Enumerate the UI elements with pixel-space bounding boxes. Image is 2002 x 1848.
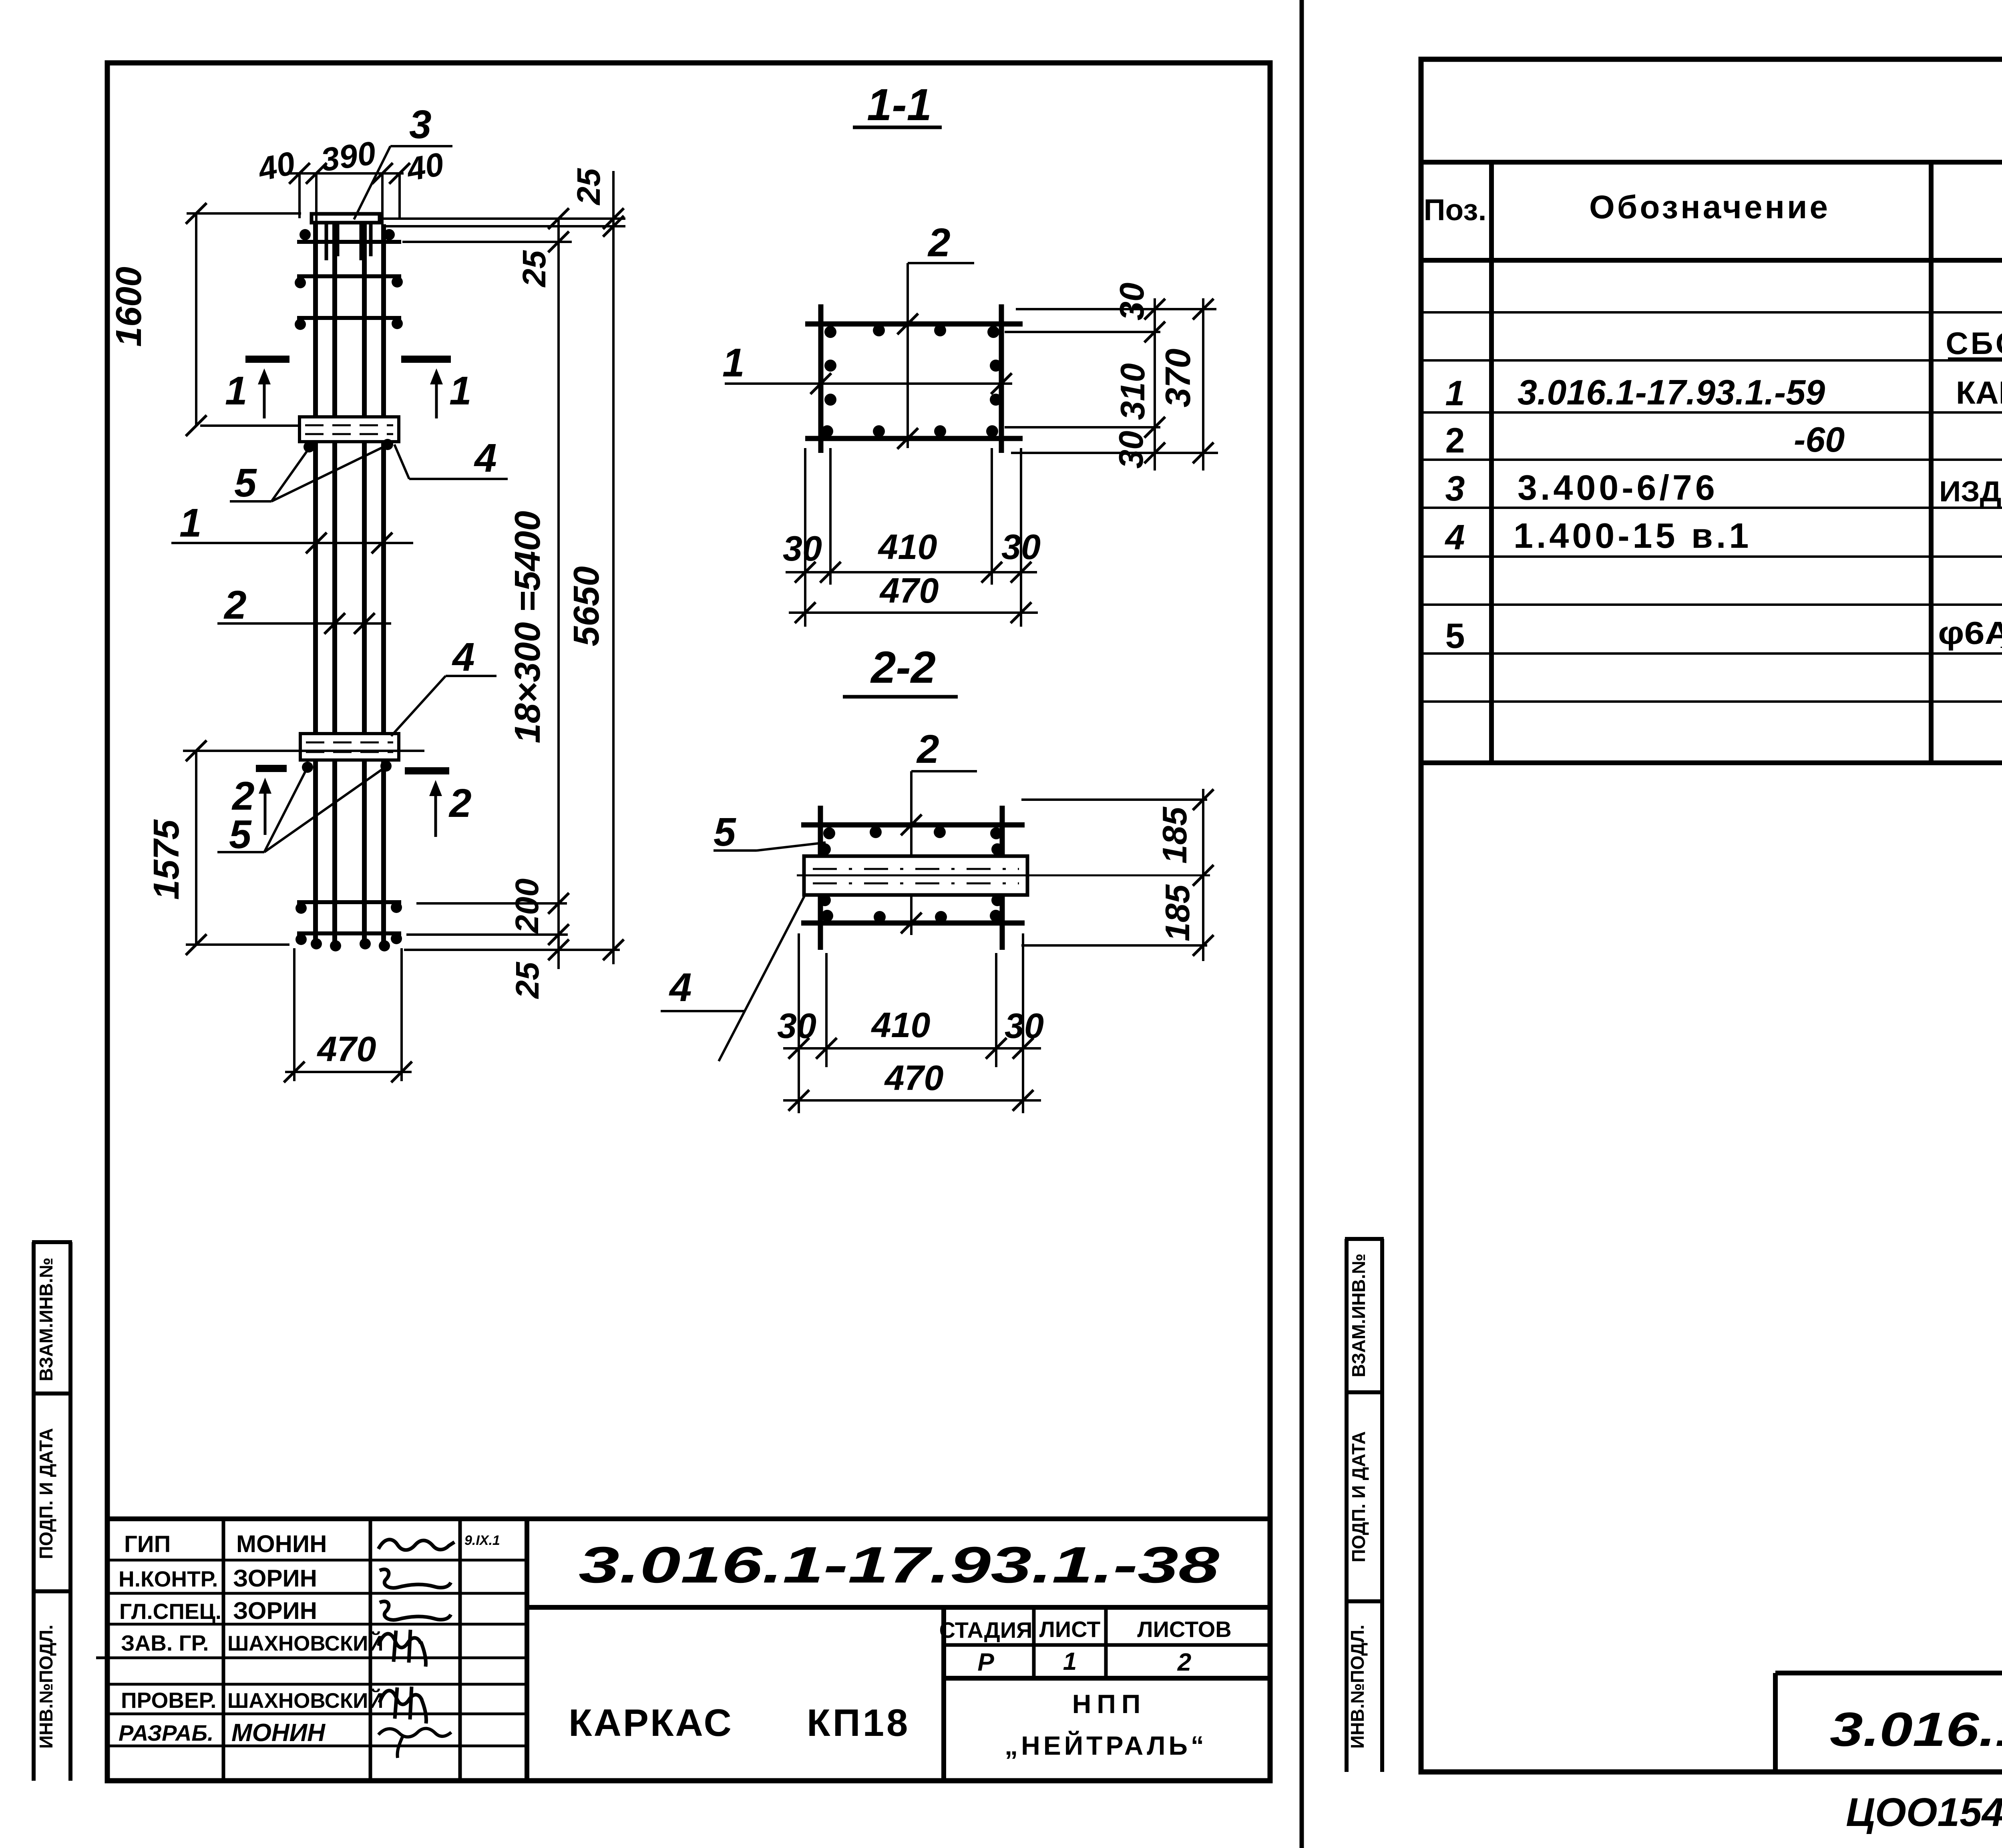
section title 2-2	[843, 642, 958, 697]
signature Зав.гр	[378, 1630, 426, 1667]
section 2-2 centre line extension	[797, 875, 1210, 877]
embedded plate МИ1-36 (item 3)	[312, 214, 380, 223]
svg-text:5: 5	[1445, 616, 1465, 656]
dim line 5650	[603, 171, 624, 964]
svg-text:1-1: 1-1	[867, 80, 932, 130]
svg-text:КАРКАС: КАРКАС	[569, 1701, 733, 1744]
svg-text:ПОДП. И ДАТА: ПОДП. И ДАТА	[36, 1428, 56, 1559]
svg-text:ПРОВЕР.: ПРОВЕР.	[121, 1688, 216, 1713]
svg-text:МОНИН: МОНИН	[236, 1530, 327, 1557]
svg-text:25: 25	[509, 961, 546, 999]
right margin column box	[1345, 1239, 1384, 1772]
svg-text:ГЛ.СПЕЦ.: ГЛ.СПЕЦ.	[119, 1599, 221, 1624]
svg-text:470: 470	[879, 571, 939, 610]
section 2-2 item leader 4	[661, 894, 806, 1061]
svg-text:ВЗАМ.ИНВ.№: ВЗАМ.ИНВ.№	[1348, 1253, 1369, 1377]
bottom stamp of right page	[1775, 1673, 2002, 1772]
signature Разраб	[378, 1728, 451, 1758]
svg-text:Поз.: Поз.	[1424, 193, 1487, 227]
item label 5 upper with leaders	[230, 446, 385, 505]
section 2-2 dim line 185/185	[1193, 789, 1214, 961]
svg-text:4: 4	[452, 635, 475, 680]
svg-text:4: 4	[669, 965, 692, 1010]
section 2-2 item leader 5	[714, 810, 826, 855]
svg-text:410: 410	[871, 1005, 931, 1045]
stirrup end dots	[295, 229, 403, 945]
svg-text:ШАХНОВСКИЙ: ШАХНОВСКИЙ	[227, 1688, 383, 1713]
svg-text:2: 2	[927, 220, 951, 265]
svg-text:3: 3	[409, 102, 432, 147]
svg-text:КАРКАС: КАРКАС	[1956, 375, 2002, 410]
plate anchor stubs	[326, 223, 371, 260]
svg-text:470: 470	[884, 1058, 944, 1098]
svg-text:410: 410	[878, 527, 937, 567]
section mark 1-1 left	[245, 359, 289, 418]
section 2-2 МН808 plate (item 4)	[804, 856, 1027, 895]
signature Провер	[380, 1687, 426, 1723]
longitudinal rebar bar 1 (left outer)	[313, 224, 318, 948]
section 2-2 rebar dots	[819, 826, 1003, 923]
svg-text:30: 30	[783, 529, 822, 568]
svg-text:1600: 1600	[109, 267, 149, 347]
svg-text:185: 185	[1159, 884, 1197, 941]
section 2-2 stirrup left leg	[818, 806, 823, 950]
svg-text:1.400-15 в.1: 1.400-15 в.1	[1514, 516, 1752, 555]
connecting element МН808 upper (item 4)	[299, 417, 399, 442]
svg-text:3.016.1-17.93.1.-59: 3.016.1-17.93.1.-59	[1518, 372, 1825, 412]
svg-text:370: 370	[1158, 349, 1198, 408]
svg-text:1575: 1575	[147, 819, 187, 900]
section 1-1 cut leader 2	[897, 220, 974, 449]
signature Гл.спец	[380, 1601, 451, 1620]
item label 4 upper with leader	[394, 436, 508, 481]
svg-text:1: 1	[722, 340, 745, 385]
dim 1575 (left)	[183, 740, 424, 955]
section 1-1 rebar dots	[821, 324, 1002, 437]
svg-text:2: 2	[1445, 420, 1465, 460]
section 2-2 stirrup top leg	[801, 822, 1025, 828]
bar bottom end dots	[311, 938, 390, 951]
svg-text:ЗАВ. ГР.: ЗАВ. ГР.	[121, 1631, 209, 1655]
section title 1-1	[853, 80, 942, 130]
svg-text:4: 4	[474, 436, 497, 481]
svg-text:200: 200	[509, 879, 545, 934]
section 1-1 stirrup top leg	[805, 322, 1023, 327]
svg-text:3.400-6/76: 3.400-6/76	[1518, 468, 1718, 507]
svg-text:ГИП: ГИП	[124, 1531, 171, 1557]
svg-text:СТАДИЯ: СТАДИЯ	[939, 1617, 1033, 1643]
svg-text:ЛИСТ: ЛИСТ	[1039, 1617, 1101, 1642]
svg-text:НПП: НПП	[1072, 1689, 1146, 1719]
left title block gridlines	[96, 1519, 1270, 1781]
svg-text:5: 5	[229, 812, 252, 857]
dots under lower МН808	[302, 762, 313, 773]
svg-text:470: 470	[317, 1029, 376, 1069]
svg-text:РАЗРАБ.: РАЗРАБ.	[119, 1720, 214, 1745]
section mark 1-1 right	[401, 359, 451, 418]
longitudinal rebar bar 3 (right inner)	[362, 224, 367, 948]
svg-text:1: 1	[449, 368, 472, 413]
svg-text:2: 2	[916, 727, 939, 772]
svg-text:ИЗДЕЛИЕ ЗАКЛАДНОЕ МИ1-36: ИЗДЕЛИЕ ЗАКЛАДНОЕ МИ1-36	[1939, 476, 2002, 508]
section 2-2 right extension lines	[1021, 800, 1207, 945]
svg-text:ЗОРИН: ЗОРИН	[233, 1565, 317, 1592]
section 1-1 dim line 370	[1193, 298, 1214, 471]
svg-text:3: 3	[1445, 469, 1465, 508]
section 2-2 stirrup right leg	[1000, 806, 1005, 950]
left margin column box	[32, 1242, 72, 1781]
svg-text:ПОДП. И ДАТА: ПОДП. И ДАТА	[1348, 1431, 1369, 1562]
section 2-2 dim line 30/410/30	[783, 1038, 1041, 1059]
svg-text:30: 30	[1001, 527, 1041, 567]
svg-text:1: 1	[225, 368, 247, 413]
signature ГИП	[378, 1540, 454, 1550]
svg-text:Н.КОНТР.: Н.КОНТР.	[119, 1566, 218, 1591]
svg-text:1: 1	[1063, 1648, 1077, 1675]
svg-text:1: 1	[1445, 373, 1465, 413]
node leader 2 (КР22)	[217, 613, 391, 634]
svg-text:390: 390	[319, 135, 378, 179]
svg-text:25: 25	[571, 168, 607, 206]
svg-text:5650: 5650	[567, 566, 607, 646]
svg-text:ЦОО154-02: ЦОО154-02	[1846, 1790, 2002, 1835]
dots under upper МН808	[304, 441, 315, 452]
section 2-2 stirrup bottom leg	[801, 921, 1025, 926]
section 1-1 dim line 470	[789, 602, 1038, 623]
svg-text:ВЗАМ.ИНВ.№: ВЗАМ.ИНВ.№	[36, 1257, 56, 1381]
svg-text:5: 5	[714, 810, 736, 855]
section 1-1 node leader 1	[722, 340, 1012, 394]
stirrup at y2331	[297, 931, 401, 935]
item label 4 lower with leader	[391, 635, 496, 736]
stirrup at y2253	[297, 900, 401, 904]
dim line 18x300=5400 chain	[548, 208, 569, 969]
group heading Сборочные единицы	[1946, 326, 2002, 361]
svg-text:30: 30	[1005, 1006, 1044, 1046]
svg-text:2-2: 2-2	[870, 642, 936, 692]
svg-text:Обозначение: Обозначение	[1589, 189, 1830, 225]
signature Н.контр	[380, 1569, 451, 1588]
section 2-2 cut leader 2	[901, 727, 977, 935]
sheet divider line between left and right pages	[1300, 0, 1304, 1848]
stirrup at y604	[297, 240, 401, 244]
svg-text:40: 40	[254, 145, 298, 188]
svg-text:30: 30	[1113, 283, 1151, 321]
svg-text:9.IX.1: 9.IX.1	[464, 1533, 500, 1548]
svg-text:30: 30	[777, 1006, 816, 1046]
svg-text:ИНВ.№ПОДЛ.: ИНВ.№ПОДЛ.	[36, 1625, 56, 1749]
svg-text:40: 40	[403, 146, 446, 188]
dim 40-390-40 top	[287, 163, 410, 225]
svg-text:ШАХНОВСКИЙ: ШАХНОВСКИЙ	[227, 1631, 383, 1655]
svg-text:3.016.1-17.93.1.-38: 3.016.1-17.93.1.-38	[579, 1536, 1219, 1594]
stirrup at y794	[297, 316, 401, 320]
svg-text:ЛИСТОВ: ЛИСТОВ	[1137, 1617, 1231, 1642]
connecting element МН808 lower (item 4)	[300, 734, 399, 760]
stirrup at y690	[297, 274, 401, 278]
svg-text:30: 30	[1112, 431, 1150, 469]
section 2-2 dim line 470	[783, 1090, 1041, 1111]
specification table grid	[1421, 162, 2002, 763]
svg-text:ИНВ.№ПОДЛ.: ИНВ.№ПОДЛ.	[1347, 1625, 1368, 1749]
svg-text:„НЕЙТРАЛЬ“: „НЕЙТРАЛЬ“	[1005, 1730, 1207, 1760]
section 1-1 right extension lines	[1005, 309, 1218, 453]
section 2-2 bottom extension lines	[799, 933, 1023, 1113]
left page frame	[107, 63, 1270, 1781]
section 1-1 dim line 30/310/30	[1144, 298, 1165, 471]
svg-text:2: 2	[223, 583, 247, 627]
svg-text:4: 4	[1445, 517, 1465, 557]
section mark 2-2 right	[405, 771, 449, 837]
svg-text:2: 2	[1177, 1649, 1191, 1676]
svg-text:3.016.1- 17.93.1 -38: 3.016.1- 17.93.1 -38	[1830, 1703, 2002, 1756]
dim 470 bottom of elevation	[284, 948, 412, 1082]
svg-text:18×300 =5400: 18×300 =5400	[508, 511, 548, 744]
svg-text:СБОРОЧНЫЕ ЕДИНИЦЫ: СБОРОЧНЫЕ ЕДИНИЦЫ	[1946, 326, 2002, 361]
section 1-1 dim line 30/410/30	[786, 562, 1037, 583]
svg-text:Р: Р	[977, 1649, 994, 1676]
svg-text:25: 25	[516, 250, 553, 288]
svg-text:φ6А̲I,ГОСТ5781-82*, ℓ=370: φ6А̲I,ГОСТ5781-82*, ℓ=370	[1938, 615, 2002, 651]
item label 3 with leader	[354, 102, 452, 219]
right page frame	[1421, 59, 2002, 1772]
svg-text:МОНИН: МОНИН	[231, 1719, 326, 1747]
svg-text:2: 2	[448, 781, 472, 826]
svg-text:ЗОРИН: ЗОРИН	[233, 1597, 317, 1624]
section 1-1 stirrup left leg	[818, 304, 824, 453]
item label 5 lower with leaders	[217, 767, 385, 857]
svg-text:КП18: КП18	[807, 1701, 910, 1744]
section mark 2-2 left	[256, 768, 287, 835]
section 1-1 stirrup bottom leg	[805, 436, 1023, 441]
longitudinal rebar bar 4 (right outer)	[381, 224, 386, 948]
longitudinal rebar bar 2 (left inner)	[332, 224, 337, 948]
svg-text:185: 185	[1156, 806, 1194, 864]
svg-text:-60: -60	[1794, 420, 1845, 459]
right extension lines of elevation	[380, 219, 625, 950]
section 1-1 bottom extension lines	[805, 448, 1021, 627]
dim 1600 (left)	[186, 203, 301, 436]
svg-text:310: 310	[1114, 363, 1152, 420]
node leader 1 (КР21)	[171, 533, 413, 553]
svg-text:1: 1	[179, 501, 202, 545]
section 1-1 stirrup right leg	[999, 304, 1004, 453]
svg-text:5: 5	[234, 460, 257, 505]
